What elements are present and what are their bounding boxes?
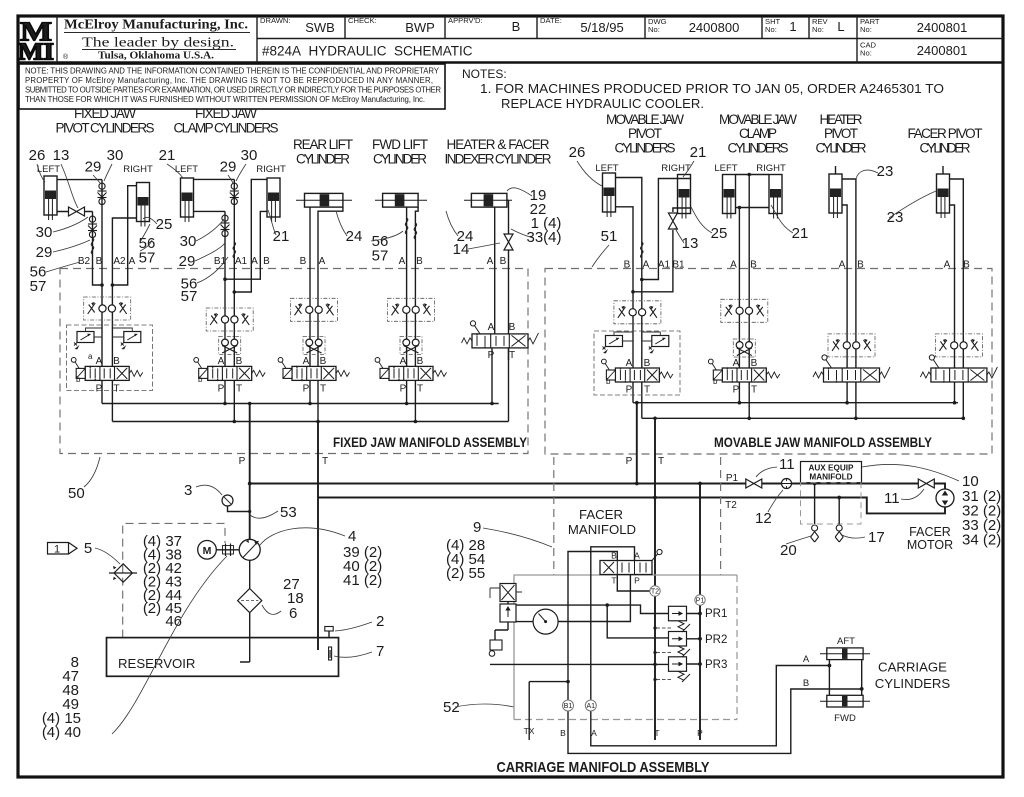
svg-text:B: B: [963, 260, 970, 271]
temp gauge 7: [329, 647, 332, 660]
fixed P bus: [102, 403, 499, 405]
svg-text:P: P: [218, 384, 225, 395]
top leaders: [37, 161, 936, 283]
svg-text:PR2: PR2: [705, 634, 727, 646]
fixed T bus: [112, 421, 508, 423]
svg-text:A: A: [251, 256, 258, 267]
svg-text:FWD: FWD: [834, 713, 856, 724]
svg-text:30: 30: [241, 147, 258, 164]
svg-text:REPLACE HYDRAULIC COOLER.: REPLACE HYDRAULIC COOLER.: [501, 97, 704, 111]
svg-text:2400800: 2400800: [689, 20, 740, 35]
svg-text:57: 57: [181, 288, 198, 305]
svg-text:A1: A1: [235, 256, 248, 267]
P1 port vertical: [699, 484, 701, 741]
svg-text:THAN THOSE FOR WHICH IT WAS FU: THAN THOSE FOR WHICH IT WAS FURNISHED WI…: [25, 95, 425, 104]
svg-text:AFT: AFT: [837, 636, 855, 647]
svg-text:A: A: [400, 356, 407, 367]
svg-text:CARRIAGE: CARRIAGE: [878, 660, 947, 675]
check pair G7: [733, 339, 755, 357]
svg-text:57: 57: [139, 250, 156, 267]
svg-text:BWP: BWP: [405, 20, 435, 35]
cylinder FWD: [820, 695, 870, 707]
flow control G3: [291, 298, 338, 321]
callouts right/middle: [755, 456, 1001, 559]
svg-text:T: T: [509, 350, 515, 361]
dir valve G6: [602, 359, 673, 383]
svg-text:CYLINDER: CYLINDER: [296, 152, 350, 167]
svg-text:PIVOT: PIVOT: [824, 126, 858, 141]
svg-text:McElroy Manufacturing, Inc.: McElroy Manufacturing, Inc.: [64, 17, 248, 32]
check pair G2: [219, 337, 241, 355]
svg-text:A: A: [730, 260, 737, 271]
svg-text:1: 1: [789, 19, 796, 34]
svg-text:T: T: [658, 456, 664, 467]
svg-text:B1: B1: [564, 703, 573, 710]
suction line: [240, 560, 250, 662]
logo MI: [18, 15, 54, 65]
svg-text:21: 21: [159, 147, 176, 164]
svg-text:29: 29: [85, 159, 102, 176]
svg-text:B: B: [300, 256, 307, 267]
svg-text:SWB: SWB: [305, 20, 335, 35]
flow control G9: [935, 334, 982, 357]
dashed enclosure: [123, 523, 225, 637]
svg-text:23: 23: [877, 163, 894, 180]
svg-text:11: 11: [779, 456, 795, 473]
svg-text:14: 14: [453, 241, 470, 258]
svg-text:MANIFOLD: MANIFOLD: [568, 522, 636, 537]
svg-text:CYLINDER: CYLINDER: [816, 141, 867, 156]
svg-text:A: A: [733, 358, 740, 369]
svg-text:2400801: 2400801: [917, 20, 968, 35]
svg-text:(2) 55: (2) 55: [446, 565, 485, 582]
bowtie 13 G1: [69, 207, 85, 216]
svg-text:b: b: [198, 375, 203, 384]
svg-text:30: 30: [36, 224, 53, 241]
svg-text:A1: A1: [658, 260, 671, 271]
svg-text:52: 52: [443, 699, 460, 716]
pressure gauge 3: [222, 495, 233, 506]
P drop fixed: [249, 404, 251, 540]
svg-text:B: B: [236, 356, 243, 367]
svg-text:T2: T2: [651, 589, 659, 596]
LEFT/RIGHT labels: [37, 163, 786, 175]
svg-text:A: A: [803, 654, 810, 665]
svg-text:4: 4: [348, 528, 356, 545]
svg-text:B: B: [857, 260, 864, 271]
svg-text:B: B: [263, 256, 270, 267]
svg-text:(4) 40: (4) 40: [42, 724, 81, 741]
svg-text:B: B: [417, 356, 424, 367]
callout lists left: [143, 533, 182, 630]
svg-text:FACER: FACER: [909, 525, 951, 539]
svg-text:3: 3: [184, 482, 192, 499]
svg-text:2: 2: [376, 613, 384, 630]
svg-text:B: B: [113, 356, 120, 367]
svg-text:P: P: [303, 384, 310, 395]
svg-text:6: 6: [289, 605, 297, 622]
NOTES text: [462, 67, 944, 111]
svg-text:MANIFOLD: MANIFOLD: [809, 473, 852, 482]
svg-text:FACER: FACER: [579, 507, 623, 522]
svg-text:PR3: PR3: [705, 659, 727, 671]
wires G6: [616, 178, 691, 419]
svg-text:AUX EQUIP: AUX EQUIP: [808, 464, 854, 473]
svg-text:SUBMITTED TO OUTSIDE PARTIES F: SUBMITTED TO OUTSIDE PARTIES FOR EXAMINA…: [25, 86, 441, 95]
svg-text:B: B: [512, 19, 521, 34]
bowtie 13 G6: [668, 213, 677, 229]
svg-text:B: B: [750, 260, 757, 271]
svg-text:A: A: [96, 356, 103, 367]
svg-text:T: T: [654, 728, 659, 738]
svg-text:FIXED JAW: FIXED JAW: [74, 106, 136, 121]
filter 6: [238, 589, 262, 613]
cylinder right G1: [137, 183, 150, 227]
cylinder left G2: [181, 178, 194, 222]
flow control G2: [206, 308, 253, 331]
svg-text:T: T: [417, 384, 423, 395]
T drop/return fixed: [317, 422, 319, 651]
cylinder facer pivot: [937, 174, 950, 218]
svg-text:1: 1: [54, 544, 60, 556]
svg-text:No:: No:: [812, 25, 824, 34]
flow meter 12: [782, 479, 792, 489]
relief box G6: [594, 331, 680, 395]
svg-text:21: 21: [792, 225, 809, 242]
svg-text:29: 29: [179, 253, 196, 270]
dir valve G2: [194, 358, 265, 382]
svg-text:A1: A1: [587, 703, 596, 710]
svg-text:T: T: [611, 576, 616, 586]
cylinder right G6: [678, 175, 691, 219]
svg-text:NOTES:: NOTES:: [462, 67, 507, 81]
svg-text:T: T: [320, 384, 326, 395]
svg-text:29: 29: [220, 159, 237, 176]
svg-text:APPRV'D:: APPRV'D:: [448, 16, 483, 25]
svg-text:A: A: [303, 356, 310, 367]
NOTE box: [19, 64, 445, 109]
svg-text:A: A: [218, 356, 225, 367]
svg-text:No:: No:: [648, 25, 660, 34]
movable jaw manifold dashed box: [545, 269, 992, 455]
svg-text:9: 9: [473, 519, 481, 536]
electric motor M: [198, 541, 217, 560]
cylinder heater/facer indexer: [464, 193, 512, 207]
P1 shutoff valve: [746, 479, 762, 488]
svg-text:RIGHT: RIGHT: [756, 163, 786, 174]
svg-text:PR1: PR1: [705, 608, 727, 620]
svg-text:Tulsa, Oklahoma U.S.A.: Tulsa, Oklahoma U.S.A.: [98, 51, 215, 62]
svg-text:57: 57: [372, 248, 389, 265]
port circles: [563, 586, 706, 711]
svg-text:HEATER & FACER: HEATER & FACER: [447, 137, 550, 152]
svg-text:29: 29: [36, 244, 53, 261]
flow control G4: [388, 298, 435, 321]
svg-text:20: 20: [780, 542, 797, 559]
svg-text:CARRIAGE MANIFOLD ASSEMBLY: CARRIAGE MANIFOLD ASSEMBLY: [497, 760, 710, 776]
svg-text:RIGHT: RIGHT: [123, 164, 153, 175]
svg-text:B: B: [560, 728, 566, 738]
svg-text:A2: A2: [113, 256, 126, 267]
svg-text:2400801: 2400801: [917, 43, 968, 58]
svg-text:11: 11: [884, 490, 900, 507]
svg-text:CYLINDERS: CYLINDERS: [728, 141, 789, 156]
svg-text:21: 21: [690, 144, 707, 161]
svg-text:CLAMP CYLINDERS: CLAMP CYLINDERS: [174, 121, 279, 136]
svg-text:13: 13: [53, 147, 70, 164]
check pair G3: [303, 337, 325, 355]
svg-text:b: b: [76, 375, 81, 384]
svg-text:25: 25: [156, 216, 173, 233]
svg-text:24: 24: [346, 228, 363, 245]
svg-text:T: T: [644, 385, 650, 396]
dir valve G4: [375, 358, 446, 382]
svg-text:57: 57: [30, 278, 47, 295]
svg-text:P1: P1: [726, 473, 739, 484]
port letters above dashed line: [78, 256, 970, 271]
svg-text:PIVOT: PIVOT: [628, 126, 662, 141]
flow control G6: [614, 301, 661, 324]
svg-text:NOTE: THIS DRAWING AND THE INF: NOTE: THIS DRAWING AND THE INFORMATION C…: [25, 67, 440, 76]
svg-text:MOVABLE JAW: MOVABLE JAW: [606, 112, 684, 127]
svg-text:FACER PIVOT: FACER PIVOT: [908, 126, 983, 141]
svg-text:CYLINDERS: CYLINDERS: [615, 141, 676, 156]
svg-text:MI: MI: [18, 38, 54, 65]
svg-text:B2: B2: [78, 256, 91, 267]
svg-text:CLAMP: CLAMP: [739, 126, 777, 141]
svg-text:26: 26: [29, 147, 46, 164]
svg-text:A: A: [129, 256, 136, 267]
P line lower bus: [250, 484, 945, 490]
svg-text:17: 17: [868, 529, 885, 546]
svg-text:MOVABLE JAW MANIFOLD ASSEMBLY: MOVABLE JAW MANIFOLD ASSEMBLY: [714, 435, 932, 450]
svg-text:13: 13: [682, 235, 699, 252]
svg-text:30: 30: [107, 147, 124, 164]
svg-text:PIVOT CYLINDERS: PIVOT CYLINDERS: [56, 121, 155, 136]
coupling: [216, 549, 239, 551]
svg-text:B: B: [644, 358, 651, 369]
svg-text:RESERVOIR: RESERVOIR: [118, 656, 195, 671]
PR valves: [653, 606, 690, 682]
svg-text:LEFT: LEFT: [175, 164, 198, 175]
svg-text:T: T: [113, 384, 119, 395]
check pair G4: [400, 337, 422, 355]
svg-text:The leader by design.: The leader by design.: [82, 35, 234, 50]
svg-text:A: A: [319, 256, 326, 267]
svg-text:FIXED JAW MANIFOLD ASSEMBLY: FIXED JAW MANIFOLD ASSEMBLY: [333, 435, 527, 450]
check stacks G1: [98, 183, 107, 205]
cylinder left G7: [723, 175, 736, 219]
svg-text:50: 50: [68, 485, 85, 502]
svg-text:P1: P1: [696, 598, 705, 605]
carriage manifold gray box 52: [514, 575, 737, 720]
svg-text:B: B: [416, 256, 423, 267]
svg-text:FWD LIFT: FWD LIFT: [372, 137, 428, 152]
needle valve 14: [504, 234, 513, 250]
flow control G7: [721, 299, 768, 322]
svg-text:A: A: [399, 256, 406, 267]
svg-text:5: 5: [84, 540, 92, 557]
svg-text:A: A: [944, 260, 951, 271]
svg-text:P: P: [626, 385, 633, 396]
svg-text:No:: No:: [765, 25, 777, 34]
svg-text:CYLINDERS: CYLINDERS: [875, 676, 951, 691]
svg-text:P: P: [96, 384, 103, 395]
svg-text:A: A: [626, 358, 633, 369]
svg-text:30: 30: [180, 233, 197, 250]
dir valve G7: [708, 359, 779, 383]
svg-text:P: P: [634, 576, 640, 586]
group titles: [56, 106, 983, 167]
svg-text:B: B: [803, 678, 809, 689]
relief box G1: [67, 325, 153, 391]
facer dashed box edges: [554, 457, 721, 575]
flow control G1: [84, 297, 131, 320]
svg-text:B: B: [751, 358, 758, 369]
svg-text:PROPERTY OF McElroy Manufactur: PROPERTY OF McElroy Manufacturing, Inc. …: [25, 76, 433, 85]
svg-text:A: A: [643, 260, 650, 271]
svg-text:FIXED JAW: FIXED JAW: [195, 106, 257, 121]
svg-text:12: 12: [755, 510, 772, 527]
svg-text:A: A: [591, 728, 597, 738]
dir valve G3: [278, 358, 349, 382]
svg-text:DRAWN:: DRAWN:: [260, 16, 291, 25]
svg-text:P: P: [400, 384, 407, 395]
svg-text:No:: No:: [860, 49, 872, 58]
svg-text:T: T: [236, 384, 242, 395]
cylinder fwd lift: [375, 193, 427, 207]
svg-text:P: P: [239, 456, 246, 467]
svg-text:RIGHT: RIGHT: [256, 164, 286, 175]
svg-text:B: B: [624, 260, 631, 271]
filter 5 diamond: [109, 564, 137, 582]
svg-text:HEATER: HEATER: [820, 112, 863, 127]
breather 2: [328, 631, 330, 638]
cylinder left G6: [603, 173, 616, 217]
svg-text:#824A HYDRAULIC SCHEMATIC: #824A HYDRAULIC SCHEMATIC: [262, 44, 473, 59]
svg-text:b: b: [606, 377, 611, 386]
wires G7: [736, 175, 770, 419]
svg-text:b: b: [713, 377, 718, 386]
svg-text:B: B: [509, 322, 516, 333]
svg-text:34 (2): 34 (2): [962, 532, 1001, 549]
svg-text:21: 21: [273, 228, 290, 245]
facer dir valve: [600, 549, 662, 585]
svg-text:A: A: [839, 260, 846, 271]
cylinder right G2: [267, 178, 280, 222]
facer motor: [936, 489, 954, 507]
reservoir: [107, 638, 339, 677]
svg-text:No:: No:: [860, 25, 872, 34]
svg-text:M: M: [203, 545, 212, 557]
svg-text:LEFT: LEFT: [714, 163, 737, 174]
facer motor shutoff valve: [918, 479, 934, 488]
svg-text:T: T: [322, 456, 328, 467]
svg-text:CHECK:: CHECK:: [348, 16, 377, 25]
hydraulic pump: [239, 539, 260, 560]
cylinder rear lift: [296, 193, 352, 207]
svg-text:B: B: [500, 256, 507, 267]
svg-text:B: B: [320, 356, 327, 367]
wires G1: [57, 180, 137, 422]
svg-text:A: A: [487, 256, 494, 267]
svg-text:B1: B1: [672, 260, 685, 271]
movable P bus: [633, 402, 958, 404]
TITLEBLOCK: [18, 15, 1003, 65]
P/T labels under manifolds: [239, 456, 739, 511]
svg-text:REAR LIFT: REAR LIFT: [293, 137, 353, 152]
svg-text:DATE:: DATE:: [540, 16, 562, 25]
svg-text:51: 51: [601, 228, 618, 245]
svg-text:P: P: [733, 385, 740, 396]
flow control G8: [828, 334, 875, 357]
movable T bus: [642, 417, 965, 419]
svg-text:MOVABLE JAW: MOVABLE JAW: [719, 112, 797, 127]
left flag 1: [48, 543, 78, 555]
svg-text:41 (2): 41 (2): [343, 572, 382, 589]
svg-text:53: 53: [280, 504, 297, 521]
dir valve G1: [71, 358, 142, 382]
svg-text:®: ®: [63, 53, 69, 61]
dir valve G5: [462, 321, 539, 349]
facer internal wires: [490, 547, 862, 754]
left relief/filter assembly: [489, 584, 522, 657]
wires G2: [194, 179, 268, 421]
dir valve G9: [920, 355, 997, 383]
svg-text:L: L: [837, 19, 844, 34]
svg-text:A: A: [488, 322, 495, 333]
cylinder left G1: [44, 176, 57, 220]
svg-text:26: 26: [569, 144, 586, 161]
svg-text:7: 7: [376, 643, 384, 660]
svg-text:a: a: [88, 352, 93, 361]
svg-text:P: P: [488, 350, 495, 361]
svg-text:25: 25: [711, 225, 728, 242]
bottom port labels: [524, 726, 704, 738]
svg-text:1. FOR MACHINES PRODUCED P: 1. FOR MACHINES PRODUCED PRIOR TO JAN 05…: [480, 82, 944, 96]
svg-text:T: T: [751, 385, 757, 396]
svg-text:T2: T2: [725, 500, 737, 511]
svg-text:5/18/95: 5/18/95: [580, 20, 623, 35]
cylinder heater pivot: [829, 174, 842, 218]
T line lower bus: [318, 498, 945, 514]
svg-text:CYLINDER: CYLINDER: [373, 152, 427, 167]
pressure gauge big: [533, 609, 558, 634]
fixed jaw manifold dashed box: [60, 269, 528, 454]
dir valve G8: [813, 355, 890, 383]
cylinder AFT: [820, 648, 870, 660]
svg-text:P: P: [626, 456, 633, 467]
cylinder right G7: [769, 175, 782, 219]
movable P drop: [636, 403, 638, 484]
svg-text:INDEXER CYLINDER: INDEXER CYLINDER: [445, 152, 552, 167]
svg-text:CYLINDER: CYLINDER: [920, 141, 971, 156]
svg-text:P: P: [697, 728, 703, 738]
leaders lower: [84, 457, 552, 734]
movable T drop continuing to facer T: [654, 418, 656, 740]
svg-text:MOTOR: MOTOR: [907, 538, 953, 552]
svg-text:TX: TX: [524, 726, 535, 736]
